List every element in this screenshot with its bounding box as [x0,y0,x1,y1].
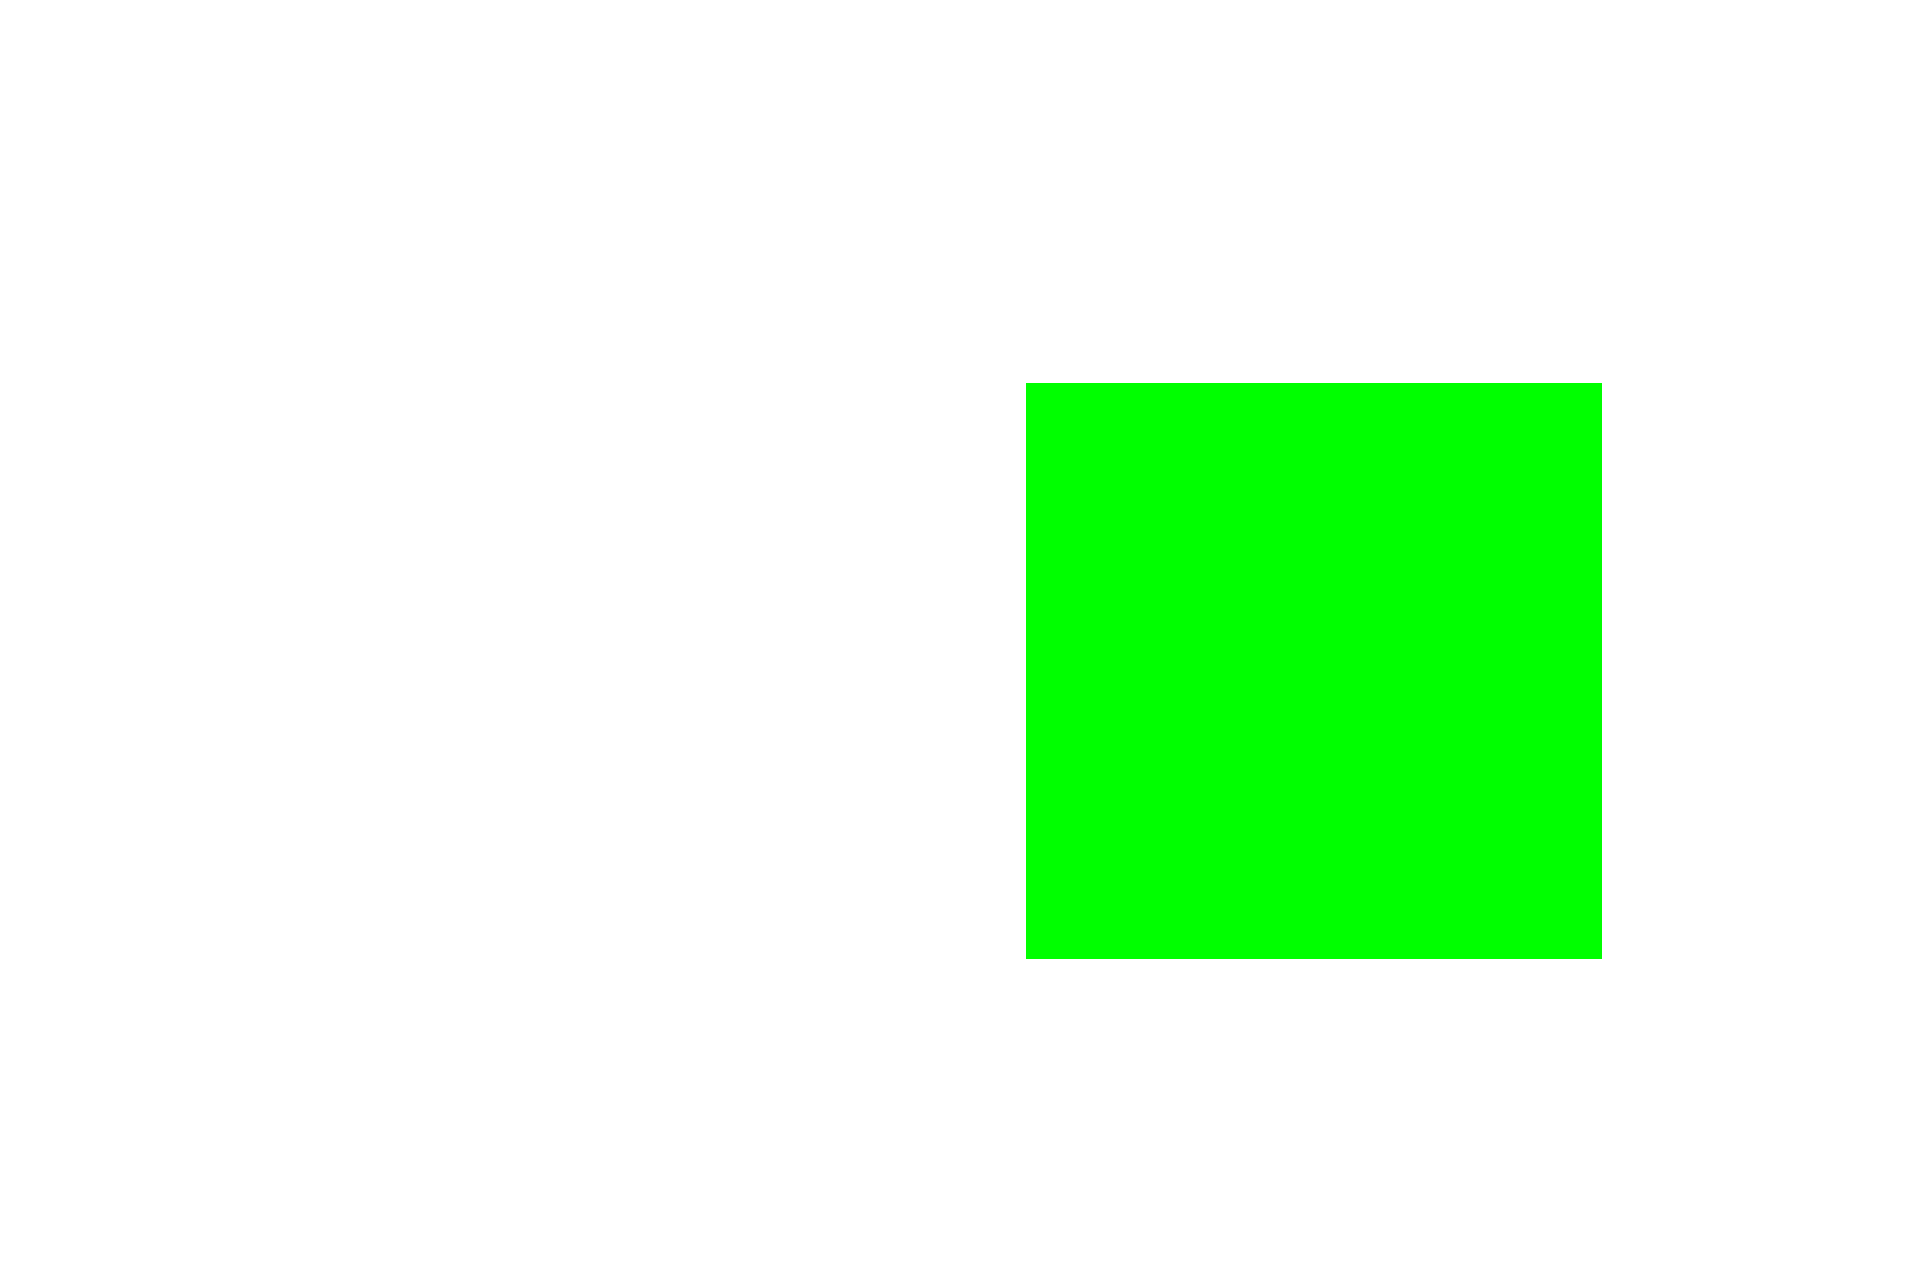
green square [1026,383,1602,959]
